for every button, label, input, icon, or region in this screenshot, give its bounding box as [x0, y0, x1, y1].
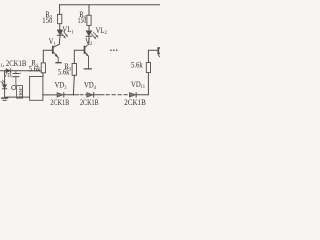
svg-text:150: 150	[78, 15, 87, 25]
wire R2 to VL1	[59, 24, 61, 30]
LED VL1	[57, 30, 68, 38]
wire R11 to chain	[147, 73, 149, 95]
wire branch1 rail to R2	[59, 5, 61, 15]
transistor V1	[53, 44, 60, 62]
LED VL2	[86, 31, 98, 39]
wire dashed chain	[106, 94, 129, 96]
wire R4 to VL2	[88, 25, 90, 30]
svg-text:5.6k: 5.6k	[131, 60, 143, 70]
svg-text:2CK1B: 2CK1B	[80, 98, 99, 108]
wire stub VD4	[85, 94, 87, 96]
capacitor C1	[13, 71, 19, 86]
diode VD11	[129, 93, 136, 98]
diode VD4	[87, 93, 94, 98]
ground V2 emitter	[84, 68, 91, 70]
wire input line	[0, 70, 41, 72]
svg-text:2CK1B: 2CK1B	[50, 98, 69, 108]
resistor R2	[58, 14, 62, 23]
diode VD3	[57, 93, 64, 98]
wire R1 to box	[42, 73, 44, 77]
component box 300	[17, 86, 23, 99]
label R2	[42, 10, 52, 26]
transistor Vn partial	[158, 47, 160, 57]
resistor R3	[72, 64, 76, 76]
wire VL1 to V1 collector	[58, 36, 61, 45]
label R4	[78, 10, 87, 26]
svg-text:150: 150	[42, 16, 52, 26]
wire bottom left	[5, 96, 30, 98]
diode VD1	[6, 69, 11, 73]
svg-text:5.6k: 5.6k	[58, 67, 70, 77]
ground V1 emitter	[56, 62, 61, 64]
wire diode chain left	[43, 94, 57, 96]
svg-text:300: 300	[17, 87, 22, 98]
svg-text:VD1: VD1	[4, 73, 13, 80]
photodiode VD2	[1, 71, 7, 97]
svg-text:2CK1B: 2CK1B	[124, 97, 146, 107]
wire VD11 to right tap	[137, 94, 149, 96]
resistor R11 5.6k	[146, 63, 150, 73]
wire V1 base	[43, 50, 53, 63]
wire R3 to diode chain	[72, 75, 75, 95]
node R3 tap	[73, 94, 74, 95]
label R3	[58, 61, 72, 76]
wire VD4 right	[94, 94, 104, 96]
wire top supply rail	[59, 4, 160, 6]
label R1	[29, 58, 41, 74]
wire V2 base	[74, 50, 84, 63]
svg-text:+: +	[19, 70, 22, 77]
transistor V2	[85, 44, 89, 68]
svg-text:5.6k: 5.6k	[29, 64, 41, 74]
wire branch2 rail to R4	[88, 5, 90, 16]
component box bottom center	[30, 77, 43, 101]
resistor R4	[87, 15, 91, 25]
wire VL2 to V2 collector	[88, 37, 90, 45]
ellipsis dots	[110, 49, 117, 51]
meter circle	[12, 86, 16, 90]
wire dash segment	[80, 94, 83, 96]
ground bottom left	[2, 98, 8, 100]
resistor R1	[41, 63, 45, 73]
wire VD3 to VD4	[64, 94, 79, 96]
svg-text:1, 2CK1B: 1, 2CK1B	[0, 58, 26, 69]
wire Vn base right branch	[148, 50, 158, 62]
